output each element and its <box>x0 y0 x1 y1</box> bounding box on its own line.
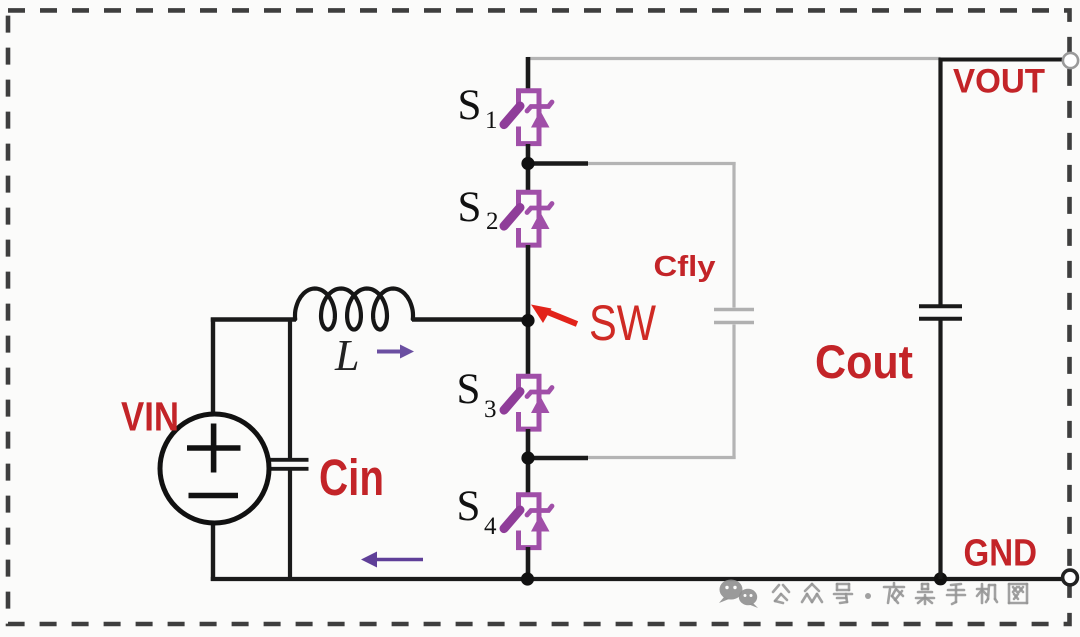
capacitor Cin <box>269 460 309 469</box>
svg-text:S: S <box>457 366 481 413</box>
wire: black stub from top rail down to S1 <box>526 57 531 92</box>
wire: VIN bottom vertical <box>211 522 215 581</box>
junction S1-S2 node dot <box>521 157 534 170</box>
watermark wechat icon small bubble eyes <box>744 594 753 597</box>
watermark char 网 <box>1009 584 1027 603</box>
wire: top rail gray segment (S1 column to Cout column) <box>527 57 941 60</box>
svg-text:GND: GND <box>964 533 1038 575</box>
switch S4 <box>504 495 552 548</box>
wire: VIN top vertical <box>211 318 215 415</box>
VIN minus sign <box>189 493 239 499</box>
wire: S4 to ground rail <box>526 547 531 580</box>
wire: black stub from S1-S2 junction to Cfly top <box>528 161 588 165</box>
wire: Cfly right vertical gray wire upper <box>732 162 735 308</box>
capacitor Cfly <box>714 310 754 323</box>
arrow return current (left) <box>361 552 423 568</box>
svg-text:2: 2 <box>486 208 499 235</box>
inductor L coil <box>295 289 413 330</box>
svg-text:VOUT: VOUT <box>953 63 1045 101</box>
wire: horizontal from inductor to SW node <box>412 317 530 321</box>
svg-text:Cfly: Cfly <box>654 251 716 283</box>
arrow red SW pointer <box>531 305 577 325</box>
watermark wechat icon big bubble <box>719 580 743 604</box>
wire: Cfly bottom gray wire <box>586 456 736 459</box>
wire: Cfly top gray wire <box>586 162 736 165</box>
wire: S1 to S1-S2 junction <box>526 144 531 192</box>
watermark char 枭 <box>916 584 934 604</box>
voltage source VIN circle <box>160 414 269 523</box>
svg-text:4: 4 <box>484 513 497 540</box>
VIN plus sign <box>187 424 241 473</box>
wire: Cin bottom vertical <box>288 471 292 580</box>
svg-text:VIN: VIN <box>121 394 179 440</box>
svg-text:1: 1 <box>485 107 498 134</box>
capacitor Cout <box>919 306 962 318</box>
terminal GND circle <box>1063 570 1078 585</box>
watermark char 手 <box>947 584 965 604</box>
watermark char 机 <box>977 584 997 603</box>
watermark char 公 <box>773 585 789 603</box>
junction S3-S4 node dot <box>521 451 534 464</box>
svg-text:3: 3 <box>484 396 497 423</box>
junction bottom rail at switch column <box>521 572 534 585</box>
terminal VOUT circle <box>1063 53 1078 68</box>
wire: Cout top vertical <box>938 58 942 305</box>
switch S3 <box>504 376 552 429</box>
switch S1 <box>504 91 552 144</box>
wire: S2 to SW node to S3 <box>526 245 531 376</box>
switch S2 <box>504 192 552 245</box>
wire: Cin top vertical <box>288 318 292 459</box>
node SW dot <box>521 314 534 327</box>
watermark middle dot <box>865 593 871 599</box>
svg-text:Cout: Cout <box>815 335 913 388</box>
junction bottom rail at Cout column <box>934 572 947 585</box>
wire: top rail black segment (Cout column to VOUT terminal) <box>939 58 1063 62</box>
svg-text:L: L <box>334 331 359 380</box>
watermark char 夜 <box>884 583 904 603</box>
wire: bottom ground rail <box>211 577 1062 581</box>
svg-text:Cin: Cin <box>319 449 384 506</box>
watermark wechat icon small bubble <box>739 589 758 608</box>
wire: S3 to S3-S4 junction <box>526 429 531 494</box>
watermark char 号 <box>834 584 852 603</box>
svg-text:S: S <box>457 483 481 530</box>
svg-text:S: S <box>458 184 482 231</box>
wire: Cfly right vertical gray wire lower <box>732 325 735 460</box>
wire: Cout bottom vertical <box>938 321 942 580</box>
watermark char 众 <box>802 584 822 602</box>
arrow inductor current (right) <box>377 345 414 359</box>
wire: top-left horizontal from VIN to inductor <box>211 317 296 321</box>
wire: black stub from S3-S4 junction to Cfly bottom <box>528 456 588 460</box>
svg-text:S: S <box>458 82 482 129</box>
svg-text:SW: SW <box>589 295 657 351</box>
watermark wechat icon big bubble eyes <box>725 586 736 589</box>
